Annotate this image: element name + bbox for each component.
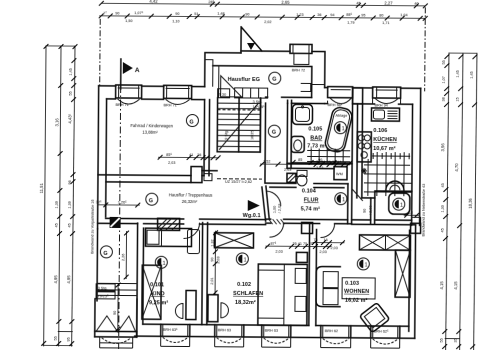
window BRH 63-5 kind xyxy=(161,324,190,346)
svg-text:26 41 75 75: 26 41 75 75 xyxy=(292,242,312,246)
svg-text:19/25⁵: 19/25⁵ xyxy=(98,294,110,298)
flur top dim xyxy=(260,160,351,178)
svg-text:BRH 72: BRH 72 xyxy=(292,68,305,72)
wc toilet xyxy=(389,193,410,214)
svg-text:WM: WM xyxy=(336,172,343,176)
svg-text:95: 95 xyxy=(361,13,365,17)
svg-text:BRH 68⁵: BRH 68⁵ xyxy=(328,103,343,107)
lamp wohnen xyxy=(357,258,369,270)
window BRH 68 bad xyxy=(328,87,353,108)
lamp bad xyxy=(334,122,346,134)
svg-text:1,79: 1,79 xyxy=(347,21,354,25)
svg-text:13,88m²: 13,88m² xyxy=(142,130,158,135)
svg-text:3,56: 3,56 xyxy=(440,143,445,152)
svg-text:G: G xyxy=(189,120,193,126)
svg-text:2,01: 2,01 xyxy=(210,277,214,284)
flur door dim xyxy=(273,204,282,214)
door arc schlafen xyxy=(270,223,284,237)
svg-text:36: 36 xyxy=(197,153,201,157)
svg-text:FLUR: FLUR xyxy=(304,197,319,203)
right dimension chain middle xyxy=(453,53,464,350)
cross dim marks right xyxy=(404,211,419,218)
lamp wc xyxy=(393,198,405,210)
niche toilet below bad xyxy=(297,170,307,186)
svg-text:55: 55 xyxy=(54,336,58,340)
corridor left dim xyxy=(96,200,140,207)
wohnen wardrobe horizontal xyxy=(359,235,410,250)
svg-text:1,00: 1,00 xyxy=(273,206,277,213)
svg-text:75: 75 xyxy=(313,238,317,242)
door leaf box flur xyxy=(302,222,313,233)
svg-text:2,03: 2,03 xyxy=(319,250,326,254)
svg-text:BRH 63: BRH 63 xyxy=(265,329,278,333)
svg-text:BRH 63: BRH 63 xyxy=(218,328,231,332)
kind desk xyxy=(175,290,196,319)
window BRH 71 right xyxy=(164,85,192,107)
window BRH 63 schlafen xyxy=(262,325,291,347)
lamp flur xyxy=(335,193,347,205)
svg-text:38: 38 xyxy=(442,97,446,101)
section flag A top xyxy=(121,59,140,89)
svg-text:9 Stg.: 9 Stg. xyxy=(224,130,228,140)
svg-text:4,42: 4,42 xyxy=(149,0,158,4)
svg-text:1,04: 1,04 xyxy=(400,13,407,17)
bad bottom dim xyxy=(291,158,353,170)
label bad xyxy=(307,126,327,149)
staircase xyxy=(217,98,260,152)
svg-text:10,67 m²: 10,67 m² xyxy=(373,146,396,152)
circled G corridor xyxy=(146,193,158,205)
svg-text:0.106: 0.106 xyxy=(373,128,387,134)
svg-text:Fahrrad / Kinderwagen: Fahrrad / Kinderwagen xyxy=(130,123,173,128)
svg-text:16: 16 xyxy=(323,238,327,242)
svg-text:45: 45 xyxy=(55,223,59,227)
left dimension chain inner xyxy=(66,44,78,346)
wohnen top wall xyxy=(352,220,416,225)
svg-text:T 30: T 30 xyxy=(219,93,227,97)
svg-text:1,10: 1,10 xyxy=(172,19,179,23)
svg-text:/ 2,03: / 2,03 xyxy=(369,205,373,215)
entrance threshold hatch xyxy=(269,219,285,224)
section line A-A xyxy=(119,59,121,349)
svg-text:G: G xyxy=(272,77,276,83)
svg-text:87⁵: 87⁵ xyxy=(270,242,276,246)
svg-text:2,03: 2,03 xyxy=(330,246,337,250)
svg-text:51: 51 xyxy=(194,12,198,16)
left dimension chain outer xyxy=(38,44,76,347)
svg-text:18,32m²: 18,32m² xyxy=(235,300,256,306)
black corner marker xyxy=(110,217,121,228)
flur room outline xyxy=(262,183,352,224)
washing machine xyxy=(334,167,347,180)
svg-text:32⁵: 32⁵ xyxy=(96,200,102,204)
entrance wing outer wall xyxy=(205,51,325,88)
svg-text:95: 95 xyxy=(67,337,71,341)
lamp schlafen xyxy=(236,253,248,265)
hatched pier flur top xyxy=(287,173,296,182)
svg-text:80: 80 xyxy=(379,14,383,18)
svg-text:2,03: 2,03 xyxy=(168,161,175,165)
svg-text:36: 36 xyxy=(317,13,321,17)
svg-text:BRH 63⁵: BRH 63⁵ xyxy=(163,328,178,332)
wohnen wardrobe vertical xyxy=(395,250,410,297)
label flur xyxy=(301,188,321,212)
svg-text:94: 94 xyxy=(330,13,334,17)
lamp kind xyxy=(155,256,167,268)
entrance door arc flur xyxy=(267,191,281,206)
svg-text:15: 15 xyxy=(456,97,460,101)
svg-text:2,26: 2,26 xyxy=(121,254,125,261)
svg-text:1,45: 1,45 xyxy=(470,71,474,78)
kitchen stove xyxy=(357,132,371,162)
svg-text:Brandwand zu Vorpahlstraße 16: Brandwand zu Vorpahlstraße 16 xyxy=(90,200,94,254)
svg-text:3,16: 3,16 xyxy=(54,118,59,127)
kind bed xyxy=(145,228,191,246)
fahrrad interior dim xyxy=(158,153,221,165)
svg-text:90: 90 xyxy=(363,209,367,213)
svg-text:BRH 62: BRH 62 xyxy=(325,329,338,333)
svg-text:0.103: 0.103 xyxy=(345,281,359,287)
schlafen wohnen wall xyxy=(309,223,317,325)
svg-text:4,43⁵: 4,43⁵ xyxy=(67,113,72,123)
circled G fahrrad xyxy=(186,114,198,126)
door arc kind xyxy=(183,222,199,238)
window BRH 62-5 wohnen xyxy=(371,326,400,348)
bad sink xyxy=(292,104,312,124)
left dimension chain middle xyxy=(53,44,75,347)
exterior top wall right part xyxy=(324,88,421,226)
svg-text:1: 1 xyxy=(364,263,367,269)
schlafen left dims xyxy=(210,230,221,295)
svg-text:40: 40 xyxy=(414,2,418,6)
wc room by kitchen xyxy=(371,191,412,224)
svg-text:7,73 m²: 7,73 m² xyxy=(307,143,326,149)
wc room sink xyxy=(386,181,404,190)
fahrrad room right wall xyxy=(204,100,210,176)
svg-text:1,39: 1,39 xyxy=(55,201,59,208)
left recess walls xyxy=(97,223,144,336)
svg-text:UZ 15/27 l=2,62: UZ 15/27 l=2,62 xyxy=(225,180,252,184)
door swing kitchen corridor xyxy=(352,189,363,201)
entrance flag wg 0.1 xyxy=(243,200,261,219)
wohnen top dim xyxy=(312,238,345,250)
svg-text:41: 41 xyxy=(189,153,193,157)
window BRH 63 kind2 xyxy=(215,325,244,347)
svg-text:26,32m²: 26,32m² xyxy=(182,199,198,204)
svg-text:2,03: 2,03 xyxy=(275,250,282,254)
hausflur EG slope diagonal xyxy=(221,76,268,98)
svg-text:1,71: 1,71 xyxy=(382,21,389,25)
svg-text:90: 90 xyxy=(210,257,214,261)
shaft box at landing xyxy=(204,174,212,181)
kitchen sink unit xyxy=(371,108,399,121)
schlafen bed xyxy=(258,264,307,325)
schlafen dresser xyxy=(208,295,229,322)
svg-text:1,32: 1,32 xyxy=(210,239,214,246)
top dimension chain row 1 xyxy=(99,0,428,8)
svg-text:0.102: 0.102 xyxy=(237,282,251,288)
svg-text:4,95: 4,95 xyxy=(53,275,58,284)
section vertical dim xyxy=(121,231,129,280)
svg-text:4,15: 4,15 xyxy=(453,281,458,290)
svg-text:18: 18 xyxy=(409,211,413,215)
svg-text:45: 45 xyxy=(356,1,360,5)
top dimension chain row 2 xyxy=(99,11,428,25)
corridor between stairs and bad xyxy=(268,103,292,168)
chimney hatched xyxy=(158,218,180,230)
svg-text:Ablage: Ablage xyxy=(335,114,347,118)
svg-text:1,07⁵: 1,07⁵ xyxy=(134,11,143,15)
wohnen sofa xyxy=(316,267,340,307)
entrance canopy triangle with arrow xyxy=(241,27,262,53)
svg-text:2,03: 2,03 xyxy=(284,168,291,172)
svg-text:A: A xyxy=(135,67,140,74)
svg-text:90: 90 xyxy=(113,311,117,315)
schlafen wardrobe xyxy=(214,233,253,248)
svg-text:85: 85 xyxy=(298,158,302,162)
wohnen right wall xyxy=(409,225,416,338)
svg-text:1,07: 1,07 xyxy=(442,76,446,83)
svg-text:45: 45 xyxy=(68,223,72,227)
svg-text:1,26⁵: 1,26⁵ xyxy=(118,200,127,204)
svg-text:1: 1 xyxy=(400,203,403,209)
svg-text:9,25 m²: 9,25 m² xyxy=(149,300,168,306)
svg-text:BRH 71: BRH 71 xyxy=(164,103,177,107)
svg-text:16,02 m²: 16,02 m² xyxy=(345,298,368,304)
svg-text:1: 1 xyxy=(244,258,247,264)
svg-text:1: 1 xyxy=(162,261,165,267)
schlafen top dim xyxy=(265,242,332,255)
axis dash-dot right top xyxy=(424,7,427,91)
svg-text:18/25: 18/25 xyxy=(250,130,254,140)
svg-text:5,74 m²: 5,74 m² xyxy=(301,206,320,212)
wohnen armchair xyxy=(359,303,389,333)
svg-text:1: 1 xyxy=(342,197,345,203)
drain symbol xyxy=(361,168,367,174)
label kueche xyxy=(373,128,397,152)
svg-text:55: 55 xyxy=(440,338,444,342)
window BRH 94 kitchen xyxy=(373,87,401,108)
circled G hausflur EG xyxy=(269,72,281,84)
svg-text:45: 45 xyxy=(441,228,445,232)
svg-text:BRH 71: BRH 71 xyxy=(116,103,129,107)
svg-text:16¹/25¹: 16¹/25¹ xyxy=(253,105,266,109)
svg-text:85⁵: 85⁵ xyxy=(166,153,172,157)
svg-text:Hausflur EG: Hausflur EG xyxy=(228,77,260,83)
svg-text:26 41 36 75 16: 26 41 36 75 16 xyxy=(316,160,341,164)
label kind xyxy=(149,282,169,306)
kitchen right wall bottom step xyxy=(411,217,421,233)
label schlafen xyxy=(233,282,263,306)
svg-text:1,50: 1,50 xyxy=(125,19,132,23)
window BRH 72 bay xyxy=(290,44,312,72)
svg-text:WOHNEN: WOHNEN xyxy=(344,289,369,295)
svg-text:90: 90 xyxy=(175,12,179,16)
svg-text:90: 90 xyxy=(245,13,249,17)
svg-text:Hausflur / Treppenhaus: Hausflur / Treppenhaus xyxy=(169,192,213,197)
axis dash-dot left top xyxy=(99,19,102,86)
svg-text:1,30: 1,30 xyxy=(441,205,445,212)
svg-text:45: 45 xyxy=(294,173,298,177)
bay window structure bottom left xyxy=(95,282,138,348)
svg-text:1,45: 1,45 xyxy=(456,70,460,77)
svg-text:18,36: 18,36 xyxy=(468,198,473,209)
svg-text:90: 90 xyxy=(115,12,119,16)
svg-text:2,02: 2,02 xyxy=(264,20,271,24)
svg-text:Brandwand zu Nebenstraße 43: Brandwand zu Nebenstraße 43 xyxy=(422,184,426,237)
svg-text:G: G xyxy=(272,130,276,136)
bad floor tile grid xyxy=(307,148,350,162)
bottom wall xyxy=(135,324,415,338)
svg-text:96: 96 xyxy=(68,180,72,184)
circled G left xyxy=(100,246,112,258)
svg-text:KIND: KIND xyxy=(151,291,165,297)
label hausflur treppenhaus xyxy=(169,192,213,204)
svg-text:4,15: 4,15 xyxy=(439,281,444,290)
svg-text:55: 55 xyxy=(442,60,446,64)
bad wc xyxy=(291,136,304,152)
kitchen floor tile grid xyxy=(364,152,412,196)
svg-text:SCHLAFEN: SCHLAFEN xyxy=(233,291,263,297)
svg-text:0.104: 0.104 xyxy=(302,188,316,194)
door arc wohnen xyxy=(321,224,335,238)
svg-text:11,51: 11,51 xyxy=(39,183,44,194)
kind wardrobe xyxy=(142,265,161,319)
outside stair 3 steps xyxy=(96,283,137,299)
svg-text:1,48: 1,48 xyxy=(217,12,224,16)
svg-text:0.101: 0.101 xyxy=(150,282,164,288)
svg-text:3 Stg.: 3 Stg. xyxy=(98,286,108,290)
svg-text:2,65: 2,65 xyxy=(281,0,290,5)
svg-text:Wg.0.1: Wg.0.1 xyxy=(243,213,261,219)
bathtub xyxy=(324,106,354,153)
svg-text:1,23: 1,23 xyxy=(296,13,303,17)
svg-text:BAD: BAD xyxy=(310,135,322,141)
schlafen nightstand xyxy=(296,252,307,262)
svg-text:35: 35 xyxy=(454,338,458,342)
svg-text:BRH 94: BRH 94 xyxy=(375,103,388,107)
svg-text:28⁵: 28⁵ xyxy=(208,0,214,4)
right dimension chain outer xyxy=(467,53,478,350)
stairwell right wall xyxy=(260,98,266,183)
svg-text:1,39: 1,39 xyxy=(68,201,72,208)
svg-text:1,45: 1,45 xyxy=(69,68,73,75)
svg-text:G: G xyxy=(103,251,107,257)
svg-text:2,03: 2,03 xyxy=(216,256,220,263)
label T30 xyxy=(218,89,230,98)
label wohnen xyxy=(342,278,375,304)
svg-text:4,70: 4,70 xyxy=(454,163,459,172)
kind door leaf xyxy=(187,230,199,254)
svg-text:0.105: 0.105 xyxy=(308,126,322,132)
svg-text:2,27: 2,27 xyxy=(384,1,393,6)
hausflur EG room walls xyxy=(213,66,325,104)
svg-text:G: G xyxy=(149,198,153,204)
corridor bottom wall xyxy=(98,218,266,224)
svg-text:55: 55 xyxy=(69,91,73,95)
beam label UZ xyxy=(217,179,262,184)
svg-text:1: 1 xyxy=(342,126,345,132)
svg-text:1,52: 1,52 xyxy=(263,160,270,164)
svg-text:88⁵: 88⁵ xyxy=(346,13,352,17)
svg-text:KÜCHEN: KÜCHEN xyxy=(373,136,397,143)
label fahrrad room xyxy=(130,123,173,135)
exterior top wall left part xyxy=(98,86,205,230)
right dimension chain inner xyxy=(439,52,477,350)
svg-text:45: 45 xyxy=(441,183,445,187)
kind schlafen wall xyxy=(202,223,208,325)
bad room walls xyxy=(287,87,353,224)
stair labels 3 Stg xyxy=(253,100,266,109)
window BRH 71 left xyxy=(116,85,142,107)
svg-text:4,95: 4,95 xyxy=(66,275,71,284)
wc door dim xyxy=(363,205,373,215)
window BRH 62 wohnen xyxy=(321,326,351,348)
kitchen walls xyxy=(357,104,376,198)
fahrrad bottom wall / corridor top wall xyxy=(98,166,217,183)
